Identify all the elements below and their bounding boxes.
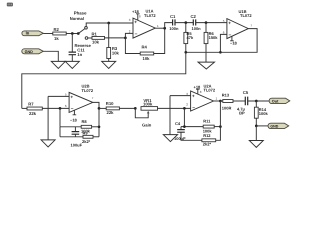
svg-text:10k: 10k <box>143 56 151 61</box>
svg-text:22k: 22k <box>29 111 37 116</box>
svg-text:+: + <box>228 22 231 27</box>
svg-text:Out: Out <box>272 99 279 103</box>
svg-text:R4: R4 <box>142 45 148 50</box>
svg-text:C5: C5 <box>243 90 249 95</box>
svg-text:1k: 1k <box>54 36 59 41</box>
svg-text:R10: R10 <box>106 101 114 106</box>
svg-text:TL072: TL072 <box>204 88 216 93</box>
svg-text:R12: R12 <box>203 133 211 138</box>
svg-text:47k: 47k <box>187 35 194 40</box>
svg-text:GND: GND <box>270 125 278 129</box>
svg-text:+: + <box>134 20 137 25</box>
svg-text:−18: −18 <box>230 40 238 45</box>
svg-text:R8: R8 <box>82 119 88 124</box>
svg-text:100k: 100k <box>259 111 269 116</box>
svg-text:22k: 22k <box>107 110 115 115</box>
svg-text:R2: R2 <box>54 27 60 32</box>
svg-text:−: − <box>229 33 232 38</box>
svg-text:100uF: 100uF <box>174 136 186 141</box>
svg-text:−: − <box>71 107 74 112</box>
svg-text:TL072: TL072 <box>82 88 94 93</box>
svg-text:−18: −18 <box>70 118 78 123</box>
svg-text:TL072: TL072 <box>240 13 252 18</box>
svg-text:−: − <box>135 32 138 37</box>
svg-text:Phase: Phase <box>74 10 87 15</box>
svg-text:C1: C1 <box>170 14 176 19</box>
svg-text:2k2*: 2k2* <box>203 142 212 147</box>
svg-text:R1: R1 <box>92 31 98 36</box>
svg-text:100uF: 100uF <box>71 143 83 148</box>
svg-text:C4: C4 <box>175 121 181 126</box>
svg-text:C2: C2 <box>191 14 197 19</box>
svg-text:R11: R11 <box>203 118 211 123</box>
svg-text:1n: 1n <box>77 52 82 57</box>
svg-text:2k2*: 2k2* <box>82 139 91 144</box>
svg-text:Normal: Normal <box>70 16 84 21</box>
svg-text:+18: +18 <box>132 9 140 14</box>
svg-text:−: − <box>192 106 195 111</box>
svg-text:100n: 100n <box>192 26 202 31</box>
svg-text:BP: BP <box>239 111 245 116</box>
svg-text:R7: R7 <box>28 101 34 106</box>
svg-text:Reverse: Reverse <box>75 43 92 48</box>
svg-text:+: + <box>70 95 73 100</box>
svg-text:100k: 100k <box>143 102 153 107</box>
svg-text:100n: 100n <box>169 26 179 31</box>
svg-text:Gain: Gain <box>142 123 152 128</box>
svg-text:+: + <box>192 95 195 100</box>
svg-text:GND: GND <box>25 50 34 54</box>
svg-text:R13: R13 <box>222 92 230 97</box>
svg-text:+18: +18 <box>194 84 202 89</box>
svg-text:In: In <box>26 31 30 36</box>
svg-text:R9: R9 <box>83 131 89 136</box>
svg-text:TL072: TL072 <box>144 13 156 18</box>
svg-text:10k: 10k <box>112 50 120 55</box>
svg-text:10k: 10k <box>92 39 100 44</box>
svg-text:100R: 100R <box>222 105 232 110</box>
svg-text:150k: 150k <box>209 35 219 40</box>
